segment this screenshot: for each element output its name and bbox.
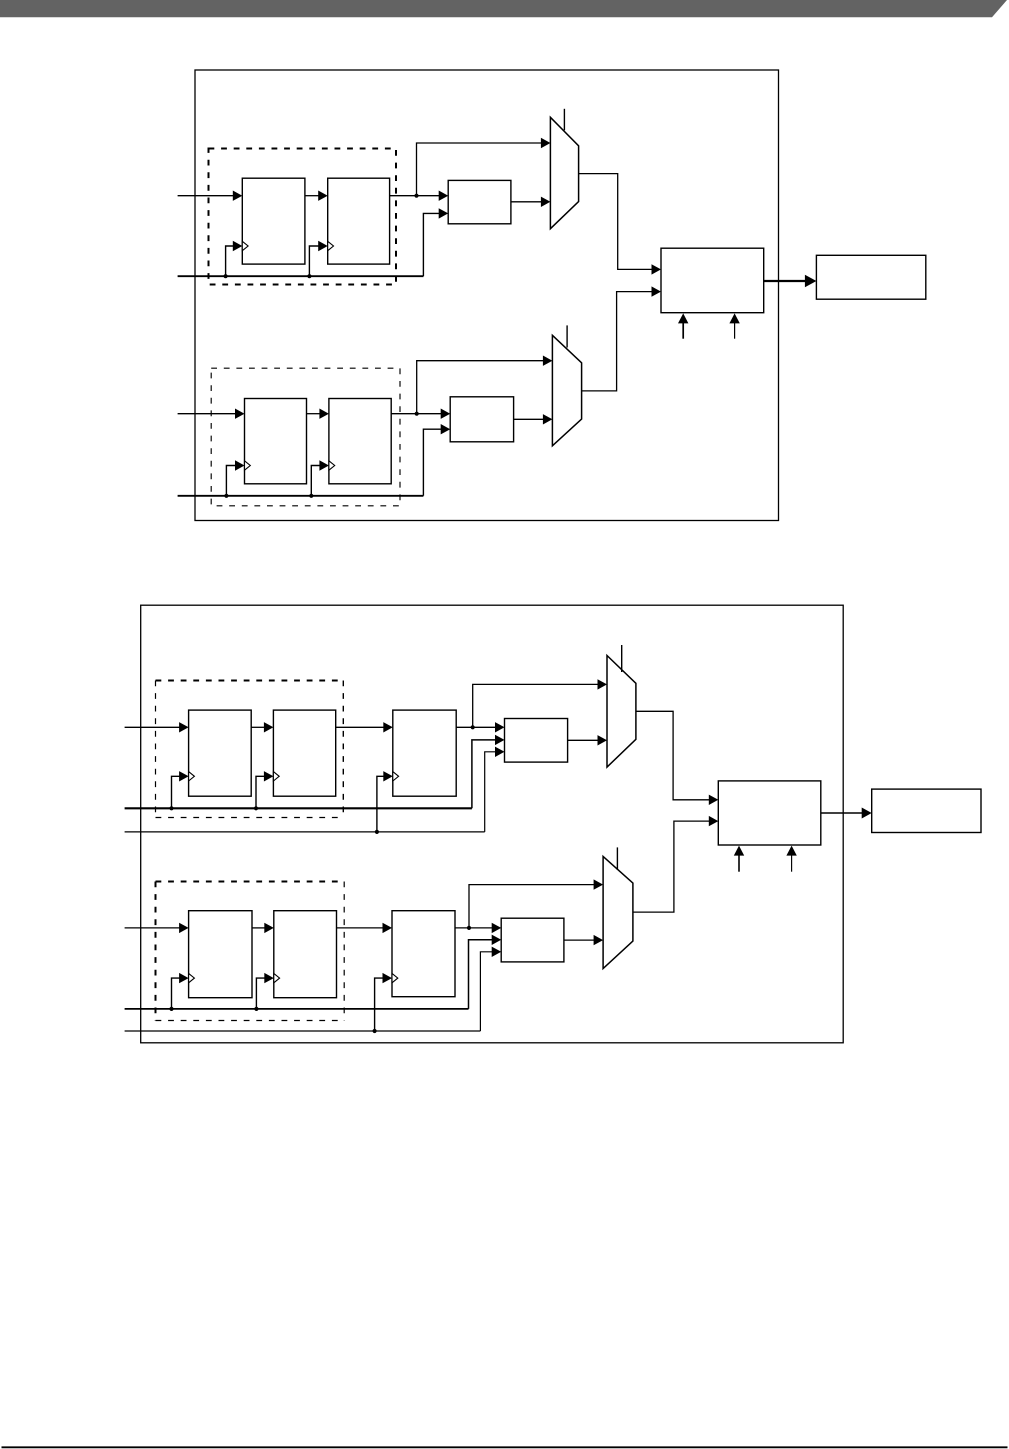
- synchronizer dashed box SYNC-C top edge: [156, 680, 344, 682]
- junction dot TRG-D / REG3-D: [373, 1029, 377, 1033]
- wire: input A to FF-A1 D: [178, 195, 234, 197]
- arrow into filter C in1: [495, 722, 505, 732]
- arrow into edge detector B in2: [441, 424, 451, 434]
- D flip-flop FF-D1: [189, 911, 252, 998]
- synchronizer dashed box SYNC-C right edge: [342, 681, 344, 818]
- arrow into FF-B1 D pin: [235, 409, 245, 419]
- junction dot CLK-A / FF-A2: [307, 274, 311, 278]
- arrow into FF-A2 clock pin: [318, 241, 328, 251]
- junction dot CLK-D / FF-D2: [254, 1007, 258, 1011]
- arrow into mux D input 1: [594, 935, 604, 945]
- arrow into FF-D2 D pin: [264, 923, 274, 933]
- wire: node D1 up to mux D input 0: [469, 885, 594, 928]
- wire: FF-C1 Q to FF-C2 D: [251, 726, 264, 728]
- arrow into FF-D2 clock pin: [264, 973, 274, 983]
- synchronizer dashed box SYNC-A: [209, 149, 397, 285]
- arrow into filter C in2: [495, 735, 505, 745]
- control up-arrow 1 into capture block 2: [738, 853, 740, 872]
- wire: node B1 up to mux B input 0: [417, 361, 544, 414]
- wire: FF-B1 Q to FF-B2 D: [307, 413, 321, 415]
- wire: FF-D1 Q to FF-D2 D: [252, 927, 265, 929]
- capture/counter block (figure 1): [661, 248, 764, 313]
- wire: CLK-D riser to FF-D1 clock: [172, 978, 180, 1009]
- mux C select line: [621, 645, 623, 672]
- arrow into mux C input 0: [598, 679, 608, 689]
- control up-arrow 2 into capture block: [734, 321, 736, 339]
- arrow into mux A input 0: [541, 138, 551, 148]
- wire: input D to FF-D1 D: [125, 927, 180, 929]
- noise filter box FLT-D: [501, 918, 564, 962]
- wire: CLK-C riser to FF-C2 clock: [256, 776, 265, 808]
- arrow into REG3-C clock pin: [383, 771, 393, 781]
- arrow into FF-C2 clock pin: [264, 771, 274, 781]
- wire: CLK-B up to edge detector B in2: [423, 429, 441, 496]
- wire: capture block to result register (thick): [764, 280, 807, 282]
- arrow into filter D in1: [492, 923, 502, 933]
- D flip-flop FF-A1: [242, 178, 305, 264]
- D flip-flop FF-C1: [189, 710, 252, 796]
- D flip-flop FF-D2: [274, 911, 337, 998]
- arrow into FF-B2 clock pin: [319, 460, 329, 470]
- mux D (trapezoid): [603, 856, 633, 968]
- D flip-flop FF-C2: [273, 710, 335, 796]
- arrow into edge detector A in1: [439, 191, 449, 201]
- arrow into result register 2: [862, 808, 872, 819]
- wire: CLK-C riser to FF-C1 clock: [172, 776, 180, 808]
- mux A select line: [563, 109, 565, 131]
- mux A (trapezoid): [550, 117, 578, 228]
- D flip-flop FF-B2: [329, 399, 391, 484]
- clock chevron FF-C2: [273, 772, 279, 781]
- wire: input C to FF-C1 D: [125, 726, 180, 728]
- page header banner (grey): [0, 0, 1007, 17]
- mux D select line: [616, 847, 618, 869]
- wire: CLK-A riser to FF-A1 clock: [226, 246, 234, 276]
- wire: mux A output to capture block in1: [579, 174, 652, 270]
- wire: CLK-D up to filter D in2: [469, 940, 493, 1009]
- wire: TRG-D up to filter D in3: [480, 952, 492, 1031]
- wire: FF-C2 Q to register3-C: [336, 726, 384, 728]
- wire: trigger net TRG-D (horizontal): [125, 1030, 481, 1032]
- wire: FF-A2 Q to edge detector A: [390, 195, 440, 197]
- wire: REG3-C Q to filter C: [456, 726, 496, 728]
- arrow into filter D in3: [492, 947, 502, 957]
- wire: CLK-C up to filter C in2: [472, 740, 496, 808]
- clock chevron REG3-C: [393, 772, 399, 781]
- arrow into mux C input 1: [598, 735, 608, 745]
- clock chevron FF-A2: [328, 241, 334, 250]
- figure 1 outer boundary box (input capture unit): [195, 70, 779, 521]
- wire: TRG-D riser to REG3-D clock: [375, 978, 384, 1031]
- wire: clock net CLK-B (horizontal): [178, 495, 424, 497]
- wire: TRG-C up to filter C in3: [485, 752, 496, 832]
- arrow into FF-C1 D pin: [179, 722, 189, 732]
- control up-arrow 1 into capture block: [682, 321, 684, 339]
- wire: ED-B out to mux B input 1: [514, 418, 544, 420]
- synchronizer dashed box SYNC-D top edge: [156, 881, 345, 883]
- wire: mux B output to capture block in2: [582, 292, 652, 391]
- arrow into capture block in1: [652, 264, 662, 274]
- wire: FF-B2 Q to edge detector B: [391, 413, 441, 415]
- wire: node C1 up to mux C input 0: [473, 684, 598, 727]
- arrow into edge detector B in1: [441, 409, 451, 419]
- junction dot TRG-C / REG3-C: [375, 830, 379, 834]
- clock chevron REG3-D: [392, 973, 398, 982]
- synchronizer dashed box SYNC-D bottom edge: [156, 1020, 345, 1022]
- junction dot CLK-C / FF-C1: [169, 806, 173, 810]
- register box REG3-C: [393, 710, 456, 796]
- wire: clock net CLK-C (horizontal, thick): [125, 807, 472, 809]
- junction dot CLK-B / FF-B1: [224, 494, 228, 498]
- arrow into mux B input 1: [543, 414, 553, 424]
- arrow into capture block 2 in1: [709, 795, 719, 805]
- wire: CLK-A up to edge detector A in2: [423, 213, 439, 276]
- mux B select line: [566, 325, 568, 347]
- wire: input B to FF-B1 D: [178, 413, 236, 415]
- arrow into capture block in2: [652, 286, 662, 296]
- arrow into FF-A1 clock pin: [233, 241, 243, 251]
- arrow into FF-B2 D pin: [319, 409, 329, 419]
- wire: clock net CLK-A (horizontal): [178, 275, 424, 277]
- wire: trigger net TRG-C (horizontal): [125, 831, 485, 833]
- wire: ED-A out to mux A input 1: [511, 201, 542, 203]
- arrow into mux B input 0: [543, 356, 553, 366]
- wire: capture block 2 to result register 2: [821, 812, 863, 814]
- D flip-flop FF-A2: [328, 178, 390, 264]
- arrow into register3-C D pin: [383, 722, 393, 732]
- arrow into FF-C1 clock pin: [179, 771, 189, 781]
- figure 2 outer boundary box (input capture unit): [141, 605, 844, 1043]
- synchronizer dashed box SYNC-D right edge: [343, 882, 345, 1021]
- synchronizer dashed box SYNC-D left edge: [155, 882, 157, 1021]
- wire: FLT-D out to mux D input 1: [564, 939, 594, 941]
- edge detector box ED-B: [450, 397, 513, 442]
- control up-arrow 2 into capture block 2: [791, 853, 793, 872]
- mux B (trapezoid): [552, 335, 581, 446]
- arrow into FF-A2 D pin: [318, 191, 328, 201]
- synchronizer dashed box SYNC-C left edge: [155, 681, 157, 818]
- wire: FLT-C out to mux C input 1: [568, 739, 599, 741]
- arrow into FF-B1 clock pin: [235, 460, 245, 470]
- result register box (figure 2): [872, 789, 981, 832]
- wire: FF-D2 Q to register3-D: [337, 927, 384, 929]
- arrow into REG3-D clock pin: [383, 973, 393, 983]
- junction dot CLK-D / FF-D1: [169, 1007, 173, 1011]
- D flip-flop FF-B1: [245, 399, 307, 484]
- wire: CLK-B riser to FF-B2 clock: [311, 466, 320, 496]
- arrow into result register: [805, 275, 817, 288]
- arrow into FF-D1 D pin: [179, 923, 189, 933]
- wire: clock net CLK-D (horizontal): [125, 1008, 469, 1010]
- wire: mux C output to capture block 2 in1: [636, 711, 710, 800]
- arrow into mux A input 1: [541, 197, 551, 207]
- node D1 junction dot: [467, 926, 471, 930]
- wire: TRG-C riser to REG3-C clock: [377, 776, 384, 832]
- arrow into filter C in3: [495, 747, 505, 757]
- node C1 junction dot: [471, 725, 475, 729]
- wire: CLK-B riser to FF-B1 clock: [226, 466, 235, 496]
- wire: CLK-A riser to FF-A2 clock: [309, 246, 318, 276]
- wire: CLK-D riser to FF-D2 clock: [256, 978, 265, 1009]
- arrow into register3-D D pin: [383, 923, 393, 933]
- capture/counter block (figure 2): [718, 781, 821, 845]
- clock chevron FF-B2: [329, 461, 335, 470]
- mux C (trapezoid): [607, 656, 636, 768]
- clock chevron FF-A1: [242, 241, 248, 250]
- noise filter box FLT-C: [505, 719, 568, 763]
- edge detector box ED-A: [448, 180, 511, 223]
- wire: node A1 up to mux A input 0: [417, 143, 542, 196]
- wire: FF-A1 Q to FF-A2 D: [305, 195, 319, 197]
- wire: REG3-D Q to filter D: [455, 927, 492, 929]
- node B1 junction dot: [415, 412, 419, 416]
- clock chevron FF-B1: [245, 461, 251, 470]
- wire: mux D output to capture block 2 in2: [633, 821, 710, 912]
- node A1 junction dot: [414, 194, 418, 198]
- arrow into FF-D1 clock pin: [179, 973, 189, 983]
- synchronizer dashed box SYNC-B: [211, 368, 400, 506]
- junction dot CLK-A / FF-A1: [224, 274, 228, 278]
- arrow into mux D input 0: [594, 879, 604, 889]
- arrow into edge detector A in2: [439, 208, 449, 218]
- synchronizer dashed box SYNC-C bottom edge: [156, 817, 344, 819]
- arrow into FF-C2 D pin: [264, 722, 274, 732]
- clock chevron FF-D1: [189, 973, 195, 982]
- junction dot CLK-C / FF-C2: [254, 806, 258, 810]
- arrow into capture block 2 in2: [709, 816, 719, 826]
- page footer rule: [2, 1446, 1008, 1448]
- arrow into filter D in2: [492, 935, 502, 945]
- clock chevron FF-D2: [274, 973, 280, 982]
- result register box (figure 1): [816, 255, 925, 299]
- arrow into FF-A1 D pin: [233, 191, 243, 201]
- clock chevron FF-C1: [189, 772, 195, 781]
- register box REG3-D: [392, 911, 455, 997]
- junction dot CLK-B / FF-B2: [309, 494, 313, 498]
